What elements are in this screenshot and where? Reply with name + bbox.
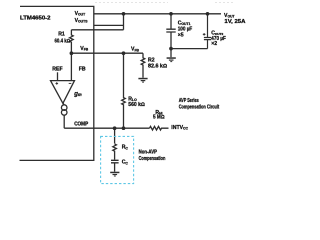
wire VFB net	[71, 52, 143, 54]
wire COMP net	[64, 127, 149, 129]
svg-text:gm: gm	[73, 91, 82, 97]
wire R1 top to VOUT tie	[71, 14, 123, 30]
bottom tie wire	[171, 48, 208, 50]
svg-text:REF: REF	[52, 67, 62, 73]
op-amp plus input	[56, 82, 72, 85]
svg-text:560 kΩ: 560 kΩ	[128, 102, 145, 108]
svg-text:VOUT: VOUT	[224, 13, 236, 19]
svg-text:+: +	[203, 33, 206, 38]
svg-text:60.4 kΩ: 60.4 kΩ	[55, 39, 71, 45]
op-amp minus input	[69, 82, 72, 84]
svg-text:AVP Series: AVP Series	[179, 98, 199, 104]
capacitor COUT2 polarized	[204, 14, 211, 49]
resistor RC	[113, 144, 117, 160]
wire VOUTS pin	[94, 24, 124, 26]
capacitor COUT1	[166, 14, 175, 49]
svg-text:5 MΩ: 5 MΩ	[153, 115, 165, 121]
svg-text:Compensation Circuit: Compensation Circuit	[179, 104, 220, 110]
op-amp gm error amplifier	[51, 81, 75, 104]
svg-text:RC: RC	[122, 145, 129, 151]
gnd wire COUT	[170, 49, 172, 58]
svg-text:Compensation: Compensation	[139, 156, 166, 162]
svg-text:1V, 25A: 1V, 25A	[224, 19, 245, 25]
resistor RLO	[122, 53, 126, 128]
IC block LTM4650-2 outline	[20, 6, 94, 160]
svg-text:VOUTS: VOUTS	[75, 18, 89, 24]
faint top smudge	[95, 2, 233, 4]
svg-text:82.6 kΩ: 82.6 kΩ	[148, 63, 167, 69]
wire FB input	[70, 53, 72, 80]
svg-text:CC: CC	[122, 160, 129, 166]
wire REF stub	[57, 72, 59, 80]
wire VOUT net	[94, 13, 221, 15]
dashed box Non-AVP compensation	[101, 136, 134, 183]
current source output circles	[61, 105, 67, 111]
svg-text:VFB: VFB	[80, 46, 89, 52]
svg-text:×2: ×2	[211, 41, 217, 47]
svg-text:VOUT: VOUT	[75, 11, 87, 17]
wire circles to COMP	[63, 115, 65, 128]
resistor R1	[70, 30, 74, 53]
svg-text:COMP: COMP	[74, 122, 89, 128]
svg-text:Non-AVP: Non-AVP	[139, 149, 158, 155]
resistor RHI horizontal	[150, 126, 169, 130]
resistor R2	[141, 53, 145, 78]
junction dots	[70, 12, 210, 130]
svg-text:VFB: VFB	[131, 47, 140, 53]
ground R2	[138, 78, 147, 80]
ground symbols	[110, 57, 176, 176]
svg-text:FB: FB	[79, 67, 86, 73]
wire RC branch	[114, 128, 116, 143]
ground CC	[110, 172, 119, 174]
capacitor CC	[111, 160, 119, 163]
svg-text:LTM4650-2: LTM4650-2	[20, 15, 51, 21]
svg-text:R1: R1	[58, 31, 65, 37]
svg-text:×5: ×5	[178, 32, 184, 38]
wire amp to circles	[63, 103, 64, 105]
svg-text:INTVCC: INTVCC	[171, 125, 188, 131]
ground COUT	[167, 57, 176, 59]
